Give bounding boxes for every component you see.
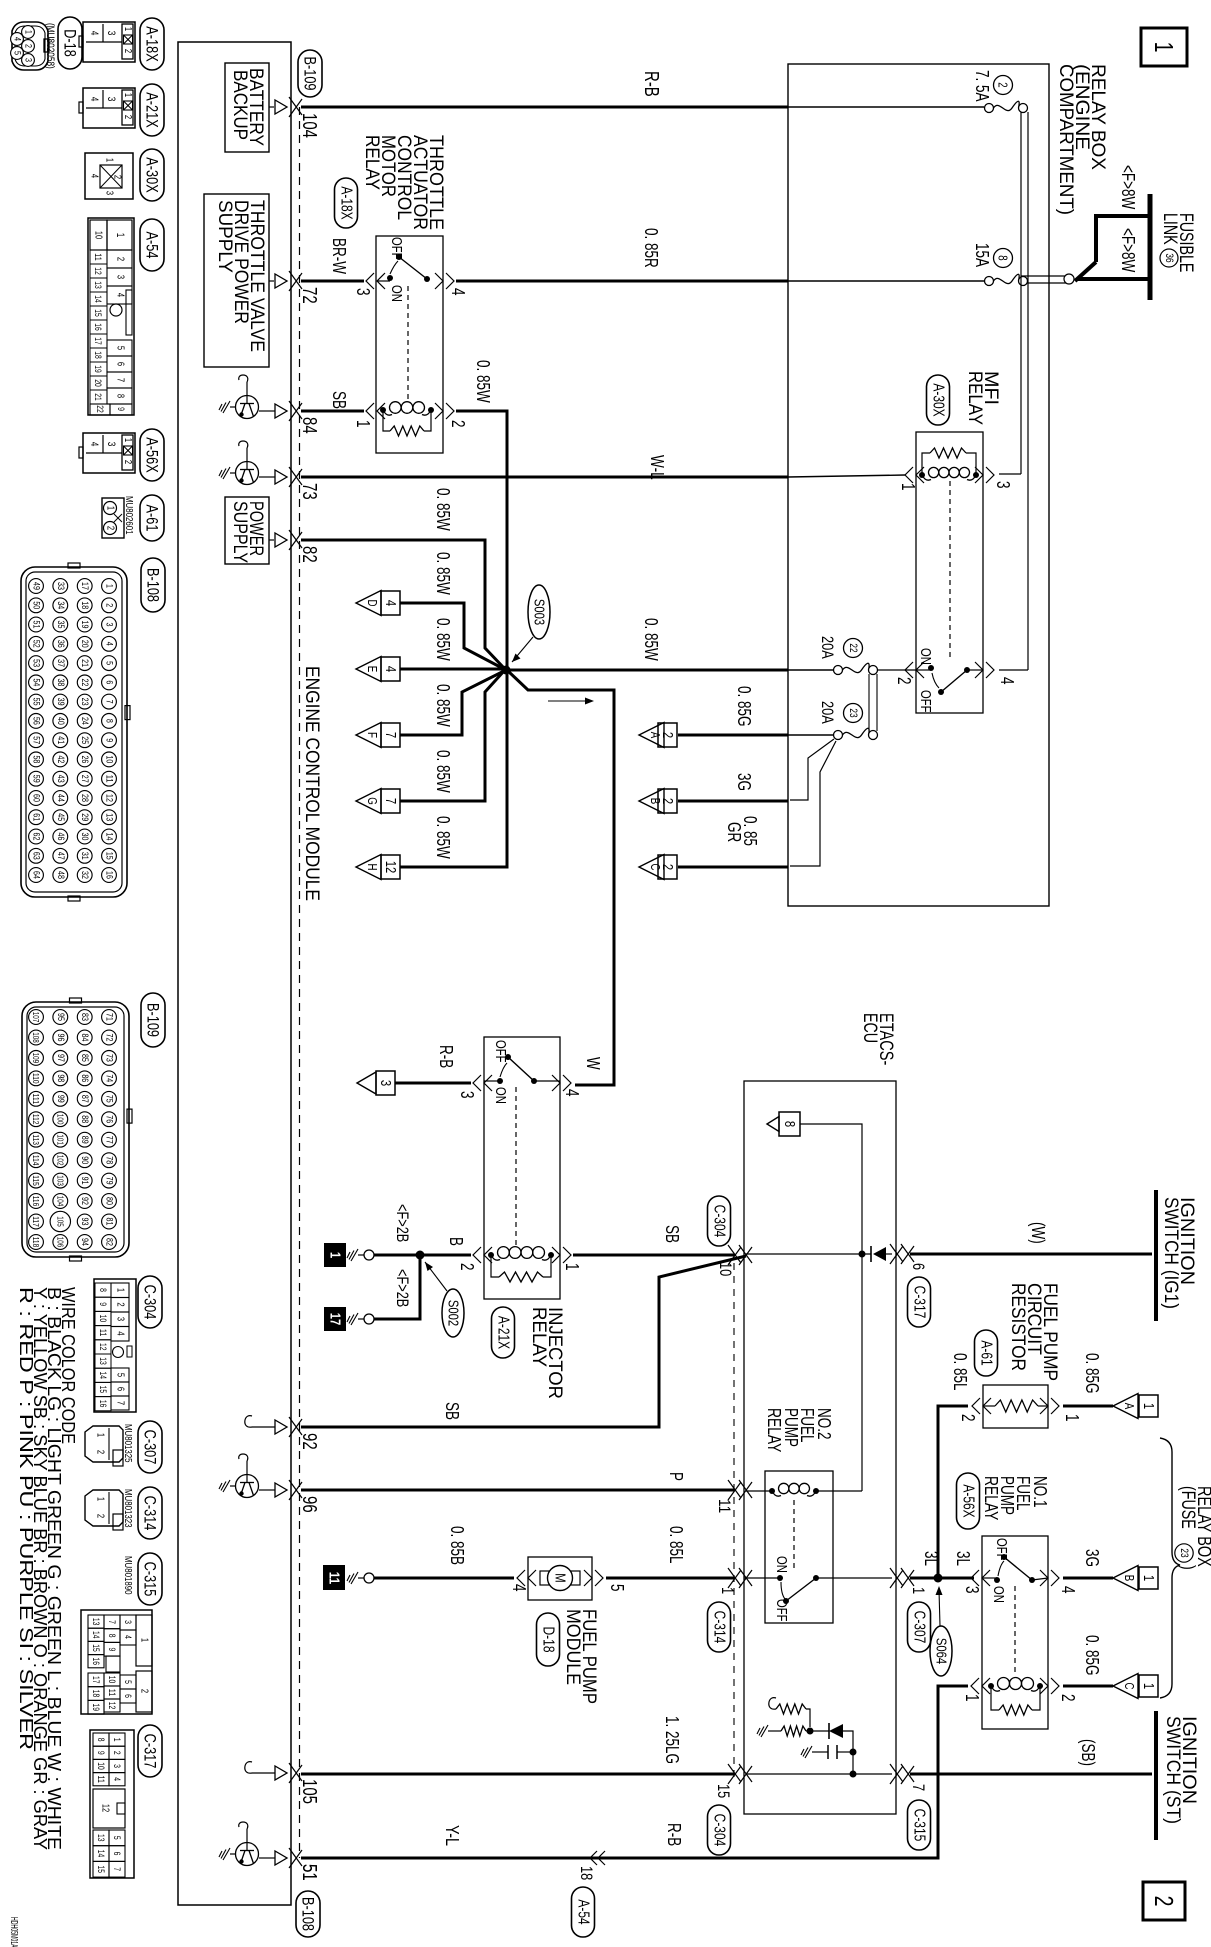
connector label A-61 oval right	[975, 1330, 998, 1376]
throttle relay coil	[353, 402, 468, 436]
svg-text:19: 19	[91, 1703, 101, 1711]
svg-text:11: 11	[104, 775, 115, 783]
svg-text:1: 1	[95, 1497, 106, 1502]
svg-text:A-30X: A-30X	[143, 157, 162, 192]
connector A-18X pinout	[79, 22, 135, 62]
svg-text:0. 85G: 0. 85G	[1082, 1353, 1102, 1394]
MFI pin3 wire to bus	[999, 473, 1021, 475]
svg-text:2: 2	[958, 1414, 978, 1422]
svg-text:49: 49	[31, 582, 42, 590]
svg-text:115: 115	[31, 1175, 41, 1186]
connector C-317 label right	[908, 1277, 931, 1327]
svg-text:104: 104	[298, 113, 320, 138]
svg-text:11: 11	[326, 1572, 343, 1585]
connector A-54 label	[140, 219, 164, 271]
svg-text:LINK: LINK	[1159, 213, 1180, 245]
connector A-56X label	[140, 429, 164, 481]
svg-text:41: 41	[55, 736, 66, 744]
svg-text:6: 6	[115, 1387, 126, 1392]
ECM pin 51	[219, 1822, 320, 1881]
svg-text:1: 1	[353, 420, 373, 428]
svg-text:B: B	[446, 1237, 466, 1246]
svg-text:F: F	[365, 732, 380, 738]
svg-text:S064: S064	[933, 1638, 950, 1664]
svg-text:B-108: B-108	[299, 1897, 318, 1931]
svg-text:96: 96	[55, 1034, 66, 1042]
connector A-61 pinout	[102, 498, 124, 538]
svg-text:C: C	[1122, 1683, 1137, 1690]
svg-text:W-L: W-L	[647, 455, 667, 480]
svg-text:87: 87	[79, 1095, 90, 1103]
svg-text:2: 2	[115, 1302, 126, 1307]
terminal H 12	[356, 855, 400, 880]
svg-text:1: 1	[95, 1433, 106, 1438]
svg-text:36: 36	[55, 640, 66, 648]
svg-text:16: 16	[93, 323, 103, 331]
wire terminal8 line down to NO.2 coil	[861, 1255, 863, 1491]
wire P ECM pin 96 to relay coil	[301, 1472, 735, 1490]
svg-text:MU801323: MU801323	[122, 1489, 134, 1528]
svg-text:<F>8W: <F>8W	[1118, 165, 1138, 209]
svg-text:99: 99	[55, 1095, 66, 1103]
ETACS resistor R1	[769, 1698, 810, 1727]
svg-text:8: 8	[98, 1288, 108, 1292]
svg-text:3: 3	[123, 1620, 133, 1624]
svg-text:1: 1	[1149, 42, 1179, 53]
MFI relay box	[916, 432, 983, 713]
svg-text:7: 7	[115, 1401, 126, 1406]
connector C-317 label	[138, 1725, 162, 1777]
svg-text:47: 47	[55, 852, 66, 860]
svg-text:0. 85W: 0. 85W	[433, 488, 453, 531]
svg-text:9: 9	[98, 1302, 108, 1306]
connector A-54 pinout	[88, 218, 134, 415]
svg-text:4: 4	[88, 442, 100, 447]
svg-text:1: 1	[909, 1587, 928, 1594]
svg-text:SWITCH (IG1): SWITCH (IG1)	[1160, 1197, 1181, 1309]
svg-text:(SB): (SB)	[1078, 1739, 1098, 1766]
svg-text:R-B: R-B	[436, 1045, 456, 1068]
wire NO.1 coil pin1 down to R-B wire	[938, 1686, 968, 1858]
svg-text:4: 4	[12, 37, 23, 41]
svg-text:20: 20	[79, 640, 90, 648]
svg-text:2: 2	[659, 798, 676, 804]
svg-text:52: 52	[31, 640, 42, 648]
wire 0.85G resistor to terminal A	[1063, 1353, 1113, 1406]
svg-text:0. 85W: 0. 85W	[473, 360, 493, 403]
svg-text:C-304: C-304	[141, 1285, 160, 1320]
terminal C 2	[639, 855, 677, 880]
connector B-108 label bottom	[296, 1864, 320, 1937]
svg-text:86: 86	[79, 1074, 90, 1082]
ground point 11	[323, 1565, 374, 1590]
svg-text:55: 55	[31, 698, 42, 706]
svg-text:3: 3	[353, 288, 373, 296]
svg-text:62: 62	[31, 833, 42, 841]
svg-text:23: 23	[847, 708, 859, 717]
wire label R-B	[640, 71, 662, 97]
svg-text:S003: S003	[531, 599, 548, 625]
wire 0.85L module to C-314	[606, 1526, 735, 1578]
svg-text:50: 50	[31, 601, 42, 609]
svg-text:31: 31	[79, 852, 90, 860]
svg-text:88: 88	[79, 1115, 90, 1123]
svg-text:2: 2	[659, 864, 676, 870]
MFI relay switch	[894, 481, 1017, 713]
svg-text:2: 2	[659, 732, 676, 738]
svg-text:C-307: C-307	[141, 1430, 160, 1465]
svg-text:13: 13	[93, 281, 103, 289]
svg-text:6: 6	[115, 362, 126, 367]
ETACS diode D1	[810, 1723, 853, 1749]
terminal D 4	[356, 591, 400, 616]
svg-text:0. 85W: 0. 85W	[433, 684, 453, 727]
svg-text:0. 85W: 0. 85W	[433, 552, 453, 595]
svg-text:4: 4	[88, 31, 100, 36]
svg-text:4: 4	[115, 1331, 126, 1336]
svg-text:96: 96	[298, 1496, 320, 1513]
svg-text:1: 1	[718, 1587, 737, 1594]
svg-text:22: 22	[95, 405, 105, 413]
fusible link name	[1159, 213, 1196, 272]
svg-text:3: 3	[105, 31, 117, 36]
svg-text:GR: GR	[724, 822, 744, 842]
svg-text:74: 74	[104, 1074, 115, 1082]
wire label 0.85W (pin82)	[433, 488, 453, 531]
wire label BR-W	[329, 238, 349, 274]
terminal 8 inside ETACS	[767, 1112, 800, 1136]
splice S064 oval	[930, 1586, 952, 1676]
wire Y-L / R-B ECM pin 51	[301, 1823, 940, 1858]
svg-text:17: 17	[91, 1676, 101, 1684]
page tab 1	[1141, 28, 1187, 66]
C-304 pin 11	[715, 1480, 752, 1513]
svg-text:M: M	[552, 1573, 569, 1582]
svg-text:101: 101	[55, 1134, 65, 1145]
fuel pump circuit resistor label	[1007, 1283, 1060, 1381]
battery backup box	[225, 63, 274, 152]
wire 82 to S003	[301, 540, 504, 668]
svg-text:12: 12	[100, 1804, 111, 1813]
terminal E 4	[356, 657, 400, 682]
svg-text:28: 28	[79, 794, 90, 802]
svg-text:ON: ON	[917, 648, 934, 665]
svg-text:15: 15	[104, 852, 115, 860]
svg-text:2: 2	[894, 677, 914, 685]
svg-text:2: 2	[115, 257, 126, 262]
wire label W	[583, 1057, 603, 1070]
svg-text:33: 33	[55, 582, 66, 590]
svg-text:BACKUP: BACKUP	[229, 70, 250, 140]
svg-text:11: 11	[107, 1689, 117, 1697]
relay box internal bus (double line)	[1021, 112, 1074, 670]
svg-text:SB: SB	[442, 1402, 462, 1420]
svg-text:16: 16	[91, 1657, 101, 1665]
ECM pin 82	[275, 530, 320, 563]
svg-text:7: 7	[115, 378, 126, 383]
svg-text:42: 42	[55, 755, 66, 763]
svg-text:C-304: C-304	[711, 1814, 728, 1847]
svg-text:3: 3	[457, 1091, 477, 1099]
svg-text:BR-W: BR-W	[329, 238, 349, 274]
svg-text:16: 16	[98, 1400, 108, 1408]
svg-text:8: 8	[115, 394, 126, 399]
svg-text:4: 4	[509, 1584, 529, 1592]
connector A-21X label	[140, 84, 164, 136]
label F2B upper	[393, 1204, 412, 1242]
svg-text:A-61: A-61	[978, 1340, 995, 1365]
svg-text:3L: 3L	[921, 1551, 941, 1566]
ignition switch ST bar	[1154, 1711, 1158, 1840]
svg-text:4: 4	[123, 1635, 133, 1639]
connector B-109 pinout	[22, 998, 132, 1261]
wire D4 to S003	[400, 603, 504, 669]
svg-text:112: 112	[31, 1114, 41, 1125]
wire 3G to terminal B	[1063, 1549, 1113, 1578]
svg-text:54: 54	[31, 678, 42, 686]
svg-text:RELAY: RELAY	[528, 1307, 549, 1367]
svg-text:38: 38	[55, 678, 66, 686]
terminal A 1 (right)	[1113, 1394, 1158, 1419]
svg-text:63: 63	[31, 852, 42, 860]
svg-text:8: 8	[104, 719, 115, 723]
connector label A-56X oval right	[957, 1473, 980, 1529]
svg-text:24: 24	[79, 717, 90, 725]
wire from terminal 8 down to IG1 line	[800, 1124, 862, 1253]
fuse 22 (20A)	[818, 636, 878, 675]
svg-text:3: 3	[993, 481, 1013, 489]
diode	[871, 1246, 892, 1262]
svg-text:18: 18	[577, 1866, 596, 1880]
svg-text:4: 4	[88, 97, 100, 102]
ground point 17	[324, 1307, 374, 1331]
svg-text:3: 3	[104, 191, 115, 196]
svg-text:<F>2B: <F>2B	[393, 1204, 412, 1242]
svg-text:1: 1	[1140, 1403, 1157, 1409]
svg-text:37: 37	[55, 659, 66, 667]
svg-text:ON: ON	[492, 1087, 509, 1104]
ignition switch IG1 bar	[1154, 1190, 1158, 1321]
svg-text:2: 2	[23, 44, 34, 48]
svg-text:76: 76	[104, 1115, 115, 1123]
svg-text:A-18X: A-18X	[143, 26, 162, 61]
svg-text:56: 56	[31, 717, 42, 725]
svg-text:2: 2	[112, 175, 123, 180]
fuse 2 (7.5A)	[985, 101, 1028, 112]
NO.2 relay coil	[746, 1483, 862, 1496]
connector label A-18X oval	[335, 178, 358, 228]
MFI pin2 wire to fuse22	[878, 669, 916, 671]
svg-text:109: 109	[31, 1053, 41, 1064]
relay box (engine compartment) outline	[788, 64, 1049, 906]
svg-text:102: 102	[55, 1155, 65, 1166]
svg-text:D-18: D-18	[61, 29, 80, 57]
connector C-307 pinout	[85, 1426, 123, 1466]
svg-text:110: 110	[31, 1073, 41, 1084]
svg-text:(W): (W)	[1028, 1222, 1048, 1244]
svg-text:2: 2	[996, 82, 1011, 87]
svg-text:10: 10	[96, 1762, 106, 1770]
svg-text:15: 15	[93, 309, 103, 317]
power supply box	[225, 497, 274, 564]
svg-text:4: 4	[997, 677, 1017, 685]
svg-text:0. 85W: 0. 85W	[433, 618, 453, 661]
svg-text:81: 81	[104, 1218, 115, 1226]
svg-text:2: 2	[122, 115, 133, 120]
svg-text:13: 13	[98, 1357, 108, 1365]
svg-text:COMPARTMENT): COMPARTMENT)	[1055, 64, 1076, 215]
wire R-B to injector relay	[395, 1045, 492, 1091]
svg-text:114: 114	[31, 1155, 41, 1166]
svg-text:(MU802058): (MU802058)	[44, 23, 56, 69]
svg-text:82: 82	[298, 546, 320, 563]
svg-text:34: 34	[55, 601, 66, 609]
svg-text:15: 15	[714, 1784, 733, 1798]
wire label 0.85W (relay to S003)	[473, 360, 493, 403]
svg-text:10: 10	[93, 231, 104, 240]
wire G7 to S003	[400, 671, 504, 801]
terminal B 1	[1113, 1566, 1158, 1591]
svg-text:SB: SB	[329, 391, 349, 409]
svg-text:73: 73	[298, 483, 320, 500]
svg-text:58: 58	[31, 755, 42, 763]
svg-text:2: 2	[122, 460, 133, 465]
svg-text:A-54: A-54	[575, 1899, 592, 1924]
svg-text:104: 104	[55, 1196, 65, 1207]
fuse 2 label	[972, 70, 1013, 102]
svg-text:79: 79	[104, 1177, 115, 1185]
svg-text:11: 11	[715, 1499, 734, 1513]
svg-text:3: 3	[377, 1080, 394, 1086]
svg-text:1: 1	[122, 438, 133, 443]
wire 0.85GR C2	[678, 816, 788, 867]
svg-text:2: 2	[95, 1514, 106, 1519]
svg-text:17: 17	[79, 582, 90, 590]
fuse 8 (15A)	[985, 274, 1028, 285]
svg-text:7: 7	[104, 700, 115, 704]
svg-text:15: 15	[96, 1865, 106, 1873]
NO.1 relay switch	[962, 1538, 1078, 1675]
svg-text:2: 2	[105, 526, 116, 531]
svg-text:3: 3	[23, 58, 34, 62]
svg-text:1: 1	[898, 483, 918, 491]
C-304 harness dashed line	[733, 1263, 735, 1780]
svg-text:OFF: OFF	[917, 690, 934, 713]
svg-text:A-30X: A-30X	[930, 383, 947, 417]
engine control module label	[301, 666, 322, 901]
svg-text:113: 113	[31, 1134, 41, 1145]
wire 0.85G to terminal C	[1063, 1635, 1113, 1686]
wire 3L junction to relay pin 3	[910, 1574, 974, 1583]
svg-text:15A: 15A	[972, 243, 992, 267]
svg-text:0. 85L: 0. 85L	[950, 1353, 970, 1391]
ECM pin 105	[245, 1762, 320, 1804]
svg-text:2: 2	[112, 1751, 122, 1755]
svg-text:12: 12	[382, 861, 399, 874]
C-314 pin 1 left	[718, 1568, 752, 1594]
svg-text:44: 44	[55, 794, 66, 802]
terminal B 2	[639, 789, 677, 814]
svg-text:1: 1	[104, 584, 115, 588]
svg-text:18: 18	[91, 1690, 101, 1698]
svg-text:9: 9	[104, 738, 115, 742]
svg-text:2: 2	[139, 1689, 150, 1694]
connector C-315 label right	[908, 1800, 931, 1850]
C-304 pin 15	[714, 1764, 752, 1798]
svg-text:G: G	[365, 797, 380, 805]
svg-text:93: 93	[79, 1218, 90, 1226]
svg-text:5: 5	[12, 51, 23, 55]
svg-text:75: 75	[104, 1095, 115, 1103]
svg-text:23: 23	[79, 698, 90, 706]
svg-text:3: 3	[112, 1764, 122, 1768]
fuel pump module motor	[509, 1557, 627, 1600]
svg-text:1: 1	[1140, 1683, 1157, 1689]
svg-text:82: 82	[104, 1238, 115, 1246]
svg-text:0. 85L: 0. 85L	[666, 1526, 686, 1564]
svg-text:2: 2	[95, 1450, 106, 1455]
wire H12 to S003	[400, 672, 507, 867]
svg-text:1: 1	[962, 1694, 982, 1702]
terminal G 7	[356, 789, 400, 814]
svg-text:2: 2	[104, 603, 115, 607]
NO.1 fuel pump relay label	[981, 1476, 1050, 1520]
svg-text:7: 7	[909, 1784, 928, 1791]
svg-text:12: 12	[107, 1702, 117, 1710]
document id HDH05M01AC	[8, 1917, 19, 1947]
svg-text:22: 22	[79, 678, 90, 686]
svg-text:2: 2	[1149, 1896, 1179, 1907]
svg-text:1: 1	[115, 1288, 126, 1293]
svg-text:1: 1	[122, 27, 133, 32]
svg-text:C-314: C-314	[141, 1496, 160, 1531]
svg-text:HDH05M01AC: HDH05M01AC	[8, 1917, 19, 1947]
wire 0.85G A2 to fuse 23	[678, 686, 788, 735]
fusible link 36	[1075, 194, 1150, 300]
svg-text:17: 17	[327, 1313, 344, 1326]
MFI relay coil	[898, 448, 1013, 491]
svg-text:9: 9	[107, 1648, 117, 1652]
svg-text:1: 1	[327, 1252, 344, 1258]
ignition switch IG1 label	[1160, 1197, 1197, 1309]
connector D-18 label	[44, 17, 82, 69]
svg-text:103: 103	[55, 1175, 65, 1186]
relay box (engine compartment) label	[1055, 64, 1108, 215]
svg-text:ON: ON	[990, 1586, 1007, 1603]
injector relay coil	[457, 1247, 582, 1282]
wire 3G B2	[678, 773, 788, 801]
svg-text:45: 45	[55, 813, 66, 821]
svg-text:4: 4	[112, 1777, 122, 1781]
svg-text:27: 27	[79, 775, 90, 783]
wire 0.85B ground to fuel pump module	[374, 1526, 514, 1578]
throttle relay A-18X label	[361, 135, 446, 230]
svg-text:A-56X: A-56X	[960, 1484, 977, 1518]
connector C-304 label	[138, 1276, 162, 1328]
MFI relay label	[964, 371, 1001, 425]
svg-text:7. 5A: 7. 5A	[972, 70, 992, 102]
svg-text:14: 14	[93, 295, 103, 303]
svg-text:5: 5	[115, 346, 126, 351]
connector C-304 label mid	[708, 1196, 731, 1246]
ECM pin 73	[219, 441, 320, 500]
svg-text:6: 6	[112, 1852, 122, 1856]
svg-text:A-18X: A-18X	[338, 186, 355, 220]
svg-text:84: 84	[79, 1034, 90, 1042]
NO.1 relay coil	[962, 1678, 1078, 1716]
wire label SB (pin92)	[442, 1402, 462, 1420]
svg-text:3L: 3L	[953, 1551, 973, 1566]
